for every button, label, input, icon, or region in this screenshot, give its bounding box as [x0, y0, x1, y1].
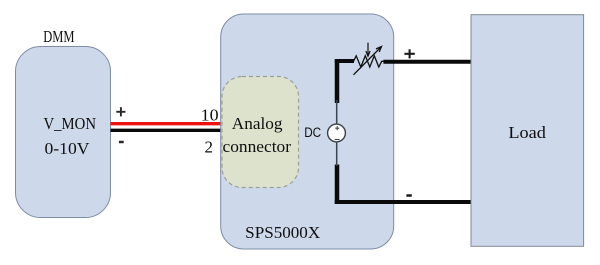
control down-arrow above resistor — [366, 43, 370, 57]
Load box — [471, 15, 584, 247]
svg-text:DMM: DMM — [43, 27, 74, 46]
svg-text:Analog: Analog — [232, 114, 283, 133]
wire (top horizontal from resistor right to Load) — [383, 60, 473, 64]
node + (output positive) — [404, 49, 414, 58]
svg-text:SPS5000X: SPS5000X — [245, 223, 320, 242]
svg-text:0-10V: 0-10V — [45, 139, 91, 158]
DC source U1 (circle) — [328, 124, 346, 142]
variable resistor (zigzag) — [354, 56, 384, 67]
svg-text:DC: DC — [304, 125, 321, 141]
DC source lower lead (thin) — [336, 142, 338, 166]
wire (top horizontal from corner to resistor left) — [335, 59, 354, 63]
wire (bottom vertical thick, from DC source lead down to corner) — [335, 165, 340, 205]
svg-text:V_MON: V_MON — [44, 114, 97, 133]
variable resistor arrow (diagonal) — [354, 47, 382, 75]
SPS5000X box — [221, 14, 394, 249]
wire black (V_MON - to pin 2) — [111, 129, 222, 132]
svg-text:10: 10 — [201, 106, 219, 125]
svg-text:connector: connector — [223, 137, 292, 156]
DC source - mark — [335, 139, 340, 141]
Analog connector (dashed box) — [222, 77, 299, 188]
wire (bottom horizontal to Load) — [335, 200, 473, 204]
wire (top-left vertical thick, from corner down to DC source lead) — [335, 60, 340, 104]
node - (DMM negative terminal) — [119, 141, 124, 144]
DMM box — [16, 47, 111, 218]
DC source + mark — [335, 126, 339, 130]
DC source upper lead (thin) — [336, 100, 338, 124]
wire red (V_MON + to pin 10) — [111, 122, 222, 125]
node - (output negative) — [406, 194, 411, 197]
svg-text:Load: Load — [508, 123, 546, 142]
node + (DMM positive terminal) — [116, 107, 125, 116]
svg-text:2: 2 — [205, 137, 214, 156]
